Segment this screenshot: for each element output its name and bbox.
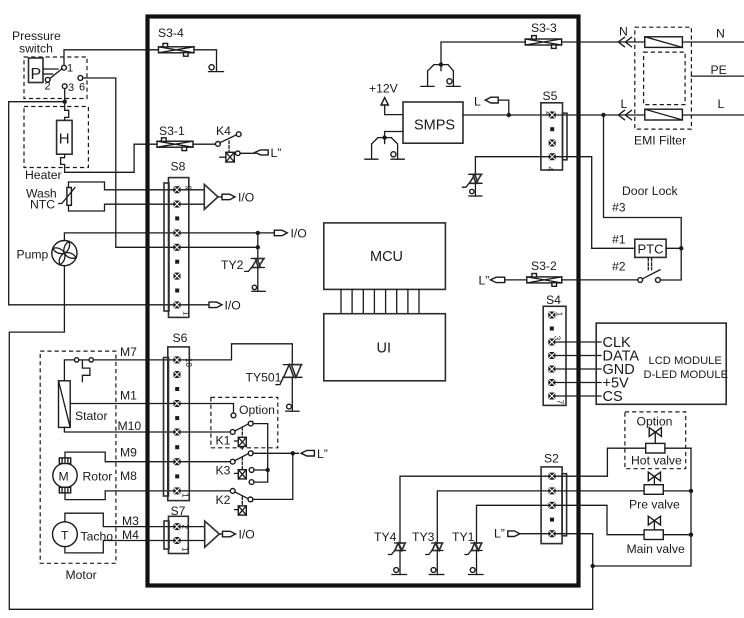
svg-text:Hot valve: Hot valve xyxy=(631,454,682,468)
svg-text:K3: K3 xyxy=(216,464,231,478)
UI block xyxy=(324,314,446,381)
svg-text:Motor: Motor xyxy=(66,568,97,582)
buffer U2 (tacho amp) xyxy=(205,521,220,547)
chevrons L line xyxy=(618,110,631,119)
pressure switch actuator links xyxy=(43,69,58,74)
wash NTC sensor loop top wire xyxy=(69,182,205,190)
connector S2 xyxy=(541,452,567,544)
wire K3 output to L'' junction xyxy=(253,452,298,454)
svg-text:M1: M1 xyxy=(120,389,137,403)
wire S3-3 right to EMI filter N xyxy=(562,41,645,43)
svg-text:TY2: TY2 xyxy=(221,258,244,272)
svg-text:N: N xyxy=(619,25,628,39)
svg-text:L”: L” xyxy=(494,527,505,541)
wire S2 pin1 to TY4 xyxy=(400,476,549,543)
S8 pin 5 xyxy=(174,244,181,251)
svg-text:M7: M7 xyxy=(120,345,137,359)
S8 pin 7 unused xyxy=(175,216,179,220)
triac TY1 xyxy=(452,530,483,575)
node tab junction xyxy=(439,62,443,66)
svg-text:EMI Filter: EMI Filter xyxy=(634,134,686,148)
svg-text:M: M xyxy=(59,470,69,484)
wire M4 tacho bottom to S7 xyxy=(65,528,177,553)
wire contact1 to S3-4 xyxy=(64,50,159,66)
relay K4 coil xyxy=(220,141,255,162)
hot valve symbol xyxy=(631,428,682,468)
wire L line to EMI with junction xyxy=(601,113,605,117)
connector flag I/O (tacho) xyxy=(223,528,255,542)
wire buffer2 out xyxy=(219,533,222,535)
wire buffer out xyxy=(218,196,222,198)
wire pre valve right xyxy=(663,490,691,492)
wire S2 pin2 to TY3 xyxy=(437,491,548,543)
S6 pin 9 xyxy=(174,371,181,378)
buffer U1 (NTC amp) xyxy=(204,184,218,209)
wash NTC sensor loop bottom wire xyxy=(69,182,205,211)
pressure switch contact 1 xyxy=(62,63,74,75)
svg-text:PTC: PTC xyxy=(638,242,664,257)
S8 pin 8 xyxy=(174,201,181,208)
svg-text:Pump: Pump xyxy=(17,247,49,261)
wire S2 pin3 right to main valve xyxy=(556,505,645,534)
board outline (main controller PCB border) xyxy=(148,17,579,586)
wire PE out xyxy=(691,75,744,77)
node junction pump/IO xyxy=(256,231,260,235)
wire pump top to S8 xyxy=(64,233,177,241)
svg-text:Tacho: Tacho xyxy=(81,530,114,544)
wire GND xyxy=(555,368,601,370)
door switch mechanical link xyxy=(648,259,651,272)
pressure switch contact 3 xyxy=(62,82,74,94)
svg-text:S2: S2 xyxy=(544,452,559,466)
EMI filter dashed enclosure xyxy=(635,27,692,129)
pressure switch label xyxy=(12,29,61,55)
svg-text:LCD MODULE: LCD MODULE xyxy=(649,355,722,367)
wire CLK xyxy=(555,341,601,343)
triac U (S5 branch) xyxy=(462,174,482,196)
svg-text:+12V: +12V xyxy=(369,82,399,96)
S5 pin 1 xyxy=(549,112,556,119)
wire hot valve right xyxy=(665,447,691,449)
svg-text:Option: Option xyxy=(239,403,275,417)
svg-text:1: 1 xyxy=(67,63,73,75)
svg-text:#3: #3 xyxy=(612,201,626,215)
svg-text:M3: M3 xyxy=(122,514,139,528)
node K3 upper contact junction xyxy=(266,468,270,472)
main valve symbol xyxy=(627,516,685,556)
svg-text:#1: #1 xyxy=(612,233,626,247)
svg-text:S5: S5 xyxy=(543,89,558,103)
svg-text:T: T xyxy=(61,529,69,543)
node junction TY2 top xyxy=(256,245,260,249)
relay K2 coil xyxy=(216,493,247,515)
wire S2 pin2 right to pre valve xyxy=(556,490,645,492)
wire S2 pin1 right to hot valve xyxy=(556,448,646,476)
S8 pin 9 xyxy=(174,186,181,193)
S4 pin 2 unused xyxy=(550,327,554,331)
relay K1 coil xyxy=(216,428,247,450)
tab terminal pair (mains input L) xyxy=(365,138,405,160)
S2 pin 5 xyxy=(549,530,556,537)
SMPS block xyxy=(403,102,463,143)
wire S5 pin4 left to triac xyxy=(475,157,548,175)
relay K2 common and arm xyxy=(181,489,253,502)
connector flag I/O (S8 pin1) xyxy=(209,299,241,313)
svg-text:CS: CS xyxy=(603,389,623,405)
wire contact3 to heater junction xyxy=(64,89,66,102)
connector S7 xyxy=(164,504,190,554)
svg-text:S3-2: S3-2 xyxy=(531,259,557,273)
wire K2 output up to L'' junction xyxy=(253,455,293,499)
EMI filter inner dashed box xyxy=(644,52,686,105)
S8 pin 4 unused xyxy=(175,260,179,264)
wire junction link down to TY2 xyxy=(257,233,259,260)
fuse S3-1 xyxy=(157,124,193,151)
wire S3-1 to K4 xyxy=(193,143,216,145)
wire junction to left rail down to S8 pin1 (I/O loop) xyxy=(9,102,177,305)
wire SMPS left to tab terminal xyxy=(385,132,403,144)
svg-text:M10: M10 xyxy=(118,419,142,433)
node heater junction xyxy=(62,100,66,104)
wire S6 pin10 to TY501 xyxy=(181,344,293,365)
relay option dashed enclosure (K1) xyxy=(211,397,278,447)
svg-text:I/O: I/O xyxy=(225,299,241,313)
connector flag L'' at S3-2 xyxy=(479,274,527,288)
wire S7 pins to buffer xyxy=(181,527,205,541)
svg-text:I/O: I/O xyxy=(238,191,254,205)
door switch contacts xyxy=(638,270,661,283)
valve option dashed enclosure xyxy=(625,412,686,469)
svg-text:4: 4 xyxy=(546,167,555,172)
wire M1 line into K1 fixed contact xyxy=(181,404,234,414)
node tab junction 2 xyxy=(382,135,386,139)
wire S3-2 to door switch (#2) xyxy=(562,279,638,281)
svg-text:6: 6 xyxy=(79,82,85,94)
svg-text:M9: M9 xyxy=(120,446,137,460)
connector flag L'' at S2 xyxy=(494,527,549,541)
wire main valve right xyxy=(663,534,691,536)
relay K3 throw contacts xyxy=(249,468,254,485)
wire M1 stator to S6 xyxy=(70,389,177,404)
svg-text:M4: M4 xyxy=(122,528,139,542)
EMI inductor N xyxy=(645,37,683,48)
svg-text:PE: PE xyxy=(711,63,727,77)
wire M8 rotor bottom to S6 xyxy=(65,469,177,500)
relay K3 common and arm xyxy=(181,451,254,464)
MCU block xyxy=(324,223,446,290)
node main valve junction xyxy=(689,533,693,537)
wire S8 pin6 to I/O flag (pump line) xyxy=(181,232,275,234)
chevrons N line xyxy=(618,37,631,46)
S8 pin 3 xyxy=(174,273,181,280)
wire M7 to S6 pin10 xyxy=(93,345,177,360)
S4 pin 1 xyxy=(548,312,555,319)
svg-text:K1: K1 xyxy=(216,434,231,448)
LCD module block xyxy=(596,323,728,405)
S7 pin 2 xyxy=(174,523,181,530)
wire S2 pin3 to TY1 xyxy=(477,505,549,543)
wire S3-4 to terminal xyxy=(194,50,217,71)
EMI inductor L xyxy=(645,109,683,120)
svg-text:K4: K4 xyxy=(216,124,231,138)
S4 pin 6 xyxy=(548,379,555,386)
triac TY2 xyxy=(221,258,265,291)
svg-text:S3-1: S3-1 xyxy=(159,124,185,138)
node L flag junction xyxy=(507,113,511,117)
node valve return junction xyxy=(591,564,595,568)
wire +5V xyxy=(555,382,601,384)
svg-text:S4: S4 xyxy=(546,293,561,307)
connector flag L xyxy=(474,95,509,116)
pressure switch arm 2-1 xyxy=(50,69,62,79)
svg-text:I/O: I/O xyxy=(291,227,307,241)
svg-text:L”: L” xyxy=(317,447,328,461)
S5 pin 3 xyxy=(549,140,556,147)
connector S6 xyxy=(164,331,194,501)
triac TY4 xyxy=(374,530,407,575)
wire CS xyxy=(555,395,601,397)
pressure switch dashed enclosure xyxy=(24,57,87,99)
bus MCU-UI xyxy=(341,289,419,313)
wire contact6 down to S8 xyxy=(83,78,177,247)
rotor symbol xyxy=(53,458,113,493)
pressure switch P body xyxy=(29,58,44,83)
S8 pin 2 unused xyxy=(175,289,179,293)
wire N out right xyxy=(682,41,744,43)
PTC block xyxy=(635,239,666,257)
svg-text:TY1: TY1 xyxy=(452,530,475,544)
triac TY3 xyxy=(412,530,444,575)
S8 pin 6 xyxy=(174,229,181,236)
triac TY501 xyxy=(246,365,302,412)
S4 pin 7 xyxy=(548,393,555,400)
svg-text:L: L xyxy=(718,97,725,111)
fuse S3-4 xyxy=(158,26,194,56)
wire thermal protector to stator top xyxy=(64,360,74,381)
svg-text:Door Lock: Door Lock xyxy=(622,184,678,198)
stator winding xyxy=(59,381,108,428)
pressure switch contact 2 xyxy=(45,77,51,92)
svg-text:L: L xyxy=(474,95,481,109)
wire junction to heater element (thermal jog) xyxy=(65,102,69,121)
svg-text:9: 9 xyxy=(184,186,193,191)
wash NTC label xyxy=(26,187,57,212)
connector S5 xyxy=(541,89,567,172)
pre valve symbol xyxy=(629,472,680,511)
svg-text:S8: S8 xyxy=(171,160,186,174)
svg-text:1: 1 xyxy=(181,493,190,498)
wire L junction down to door lock (#3) xyxy=(604,115,682,280)
S6 pin 4 unused xyxy=(175,445,179,449)
wash NTC thermistor xyxy=(59,188,75,206)
svg-text:NTC: NTC xyxy=(30,198,55,212)
svg-text:Pre valve: Pre valve xyxy=(629,498,680,512)
S2 pin 3 xyxy=(549,502,556,509)
S6 pin 8 unused xyxy=(175,387,179,391)
svg-text:D-LED MODULE: D-LED MODULE xyxy=(644,369,729,381)
svg-text:H: H xyxy=(59,131,70,148)
S4 pin 3 xyxy=(548,339,555,346)
relay K4 switch xyxy=(216,124,242,146)
heater H body xyxy=(57,120,73,154)
wire K3 upper contact xyxy=(254,469,268,471)
node PTC junction xyxy=(679,246,683,250)
svg-text:I/O: I/O xyxy=(239,528,255,542)
svg-text:L”: L” xyxy=(271,146,282,160)
svg-text:1: 1 xyxy=(182,311,191,316)
svg-text:MCU: MCU xyxy=(370,249,403,265)
wire K1 output down to K3 contacts xyxy=(253,424,268,483)
svg-text:L”: L” xyxy=(479,274,490,288)
tacho symbol xyxy=(53,522,114,547)
S6 pin 1 xyxy=(174,487,181,494)
svg-text:TY501: TY501 xyxy=(246,371,282,385)
S6 pin 5 xyxy=(174,429,181,436)
S6 pin 6 unused xyxy=(175,416,179,420)
connector S4 xyxy=(543,293,566,405)
svg-text:Main valve: Main valve xyxy=(627,542,685,556)
thermal protector contacts (M7) xyxy=(74,358,93,382)
heater dashed enclosure xyxy=(24,107,88,168)
S6 pin 10 xyxy=(174,356,181,363)
S6 pin 7 xyxy=(174,400,181,407)
svg-text:1: 1 xyxy=(555,312,564,317)
S5 pin 4 xyxy=(549,153,556,160)
svg-text:3: 3 xyxy=(68,82,74,94)
wire M10 stator bottom to S6 xyxy=(64,419,177,433)
wire heater bottom jog to S3-1 xyxy=(61,144,157,172)
wire S5 pin4 right to PTC (#1) xyxy=(556,157,635,249)
connector flag L'' (relays) xyxy=(301,447,328,461)
wire SMPS out L line to S5 and EMI xyxy=(463,114,645,116)
wire DATA xyxy=(555,355,601,357)
relay K3 coil xyxy=(216,457,247,479)
svg-text:S3-3: S3-3 xyxy=(531,21,557,35)
svg-text:S3-4: S3-4 xyxy=(158,26,184,40)
connector S8 xyxy=(164,160,193,318)
wire S3-3 left to tab terminal xyxy=(441,42,525,71)
svg-text:S6: S6 xyxy=(173,331,188,345)
S2 pin 1 xyxy=(549,473,556,480)
svg-text:SMPS: SMPS xyxy=(414,118,455,134)
S4 pin 4 xyxy=(548,352,555,359)
wire PTC right to junction xyxy=(666,247,681,249)
svg-text:P: P xyxy=(31,66,42,83)
supply +12V xyxy=(369,82,403,115)
svg-text:Stator: Stator xyxy=(75,409,108,423)
svg-text:K2: K2 xyxy=(216,493,231,507)
svg-text:Rotor: Rotor xyxy=(83,470,113,484)
node L'' junction xyxy=(291,451,295,455)
S8 pin 1 xyxy=(174,301,181,308)
svg-text:1: 1 xyxy=(181,547,190,552)
wire S8 pin5 to TY2 junction xyxy=(181,246,258,248)
S7 pin 1 xyxy=(174,537,181,544)
S6 pin 2 unused xyxy=(175,474,179,478)
wire M3 tacho top to S7 xyxy=(65,513,177,528)
svg-text:UI: UI xyxy=(377,341,392,357)
connector flag I/O (pump line) xyxy=(274,227,306,241)
S6 pin 3 xyxy=(174,458,181,465)
svg-text:L: L xyxy=(621,97,628,111)
tab terminal pair (mains input N) xyxy=(421,65,460,87)
wire L out right xyxy=(682,114,744,116)
connector flag I/O (NTC) xyxy=(222,191,254,205)
svg-text:Heater: Heater xyxy=(25,168,62,182)
fuse S3-3 xyxy=(525,21,561,48)
pump motor symbol xyxy=(48,237,80,269)
node pre valve junction xyxy=(689,489,693,493)
S5 pin 2 unused xyxy=(550,127,554,131)
connector flag L'' at K4 xyxy=(255,146,281,160)
pressure switch contact 6 xyxy=(78,76,85,94)
wire pump bottom return (long bottom rail) xyxy=(9,266,592,610)
svg-text:#2: #2 xyxy=(612,260,626,274)
relay K1 common and arm xyxy=(181,421,254,434)
wire S2 pin5 right to return node xyxy=(556,534,593,566)
wire return junction to valve common xyxy=(593,448,691,566)
S2 pin 2 xyxy=(549,487,556,494)
svg-text:TY4: TY4 xyxy=(374,530,397,544)
svg-text:N: N xyxy=(716,27,725,41)
S2 pin 4 unused xyxy=(550,518,554,522)
svg-text:Option: Option xyxy=(637,415,673,429)
terminal tab at S3-4 output xyxy=(209,65,224,72)
wire M9 rotor top to S6 xyxy=(65,446,177,462)
svg-text:TY3: TY3 xyxy=(412,530,435,544)
S4 pin 5 xyxy=(548,366,555,373)
fuse S3-2 xyxy=(527,259,562,286)
svg-text:7: 7 xyxy=(556,400,565,405)
wire S8 pin1 to I/O flag xyxy=(181,304,210,306)
motor dashed enclosure xyxy=(40,351,116,563)
svg-text:M8: M8 xyxy=(120,469,137,483)
svg-text:switch: switch xyxy=(19,41,53,55)
relay K1 fixed contact xyxy=(231,413,236,418)
svg-text:2: 2 xyxy=(45,81,51,93)
